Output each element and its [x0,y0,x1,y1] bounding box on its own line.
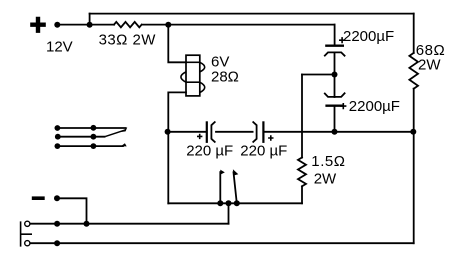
wire: from R1 junction down to relay coil [168,25,186,63]
wire: C1 to midpoint junction [334,53,336,75]
relay coil K1 winding arc right upper [200,62,205,72]
wire: relay contact rail [168,202,302,204]
output jack terminal circle upper [25,221,30,226]
wire: contact middle stem [228,203,230,223]
relay contact blade 2 arrowhead [233,169,238,175]
connector row 1 contact barb [121,127,127,132]
junction dot mid rail left [165,129,171,135]
wire: mid rail right of C4 [263,131,413,133]
svg-text:28Ω: 28Ω [211,69,239,86]
junction dot mid rail under C2 [332,129,338,135]
connector row 1 line [57,127,126,129]
battery negative terminal symbol [32,196,45,200]
capacitor C2 2200uF straight plate [325,104,344,106]
relay coil K1 core rectangle [186,55,200,96]
capacitor C4 curved plate [253,122,257,143]
capacitor C4 polarity + [268,135,273,140]
wire: right vertical lower [413,89,415,244]
wire: bottom return line [30,242,414,244]
connector dot r1c2 [91,125,97,131]
junction dot minus stem [84,221,90,227]
junction dot top rail stub [87,22,93,28]
output jack terminal circle lower [25,241,30,246]
connector dot r2c2 [91,134,97,140]
capacitor C3 polarity + [197,134,202,139]
svg-text:220 µF: 220 µF [240,142,287,159]
wire: relay coil exit down to contact rail [168,92,186,203]
relay coil K1 winding line 2 [186,81,200,83]
output jack bar [21,221,32,246]
wire: mid rail left of C3 [168,131,206,133]
relay coil K1 winding arc left [181,72,186,82]
svg-text:2200µF: 2200µF [349,98,400,115]
wire: top rail [90,13,414,15]
relay coil K1 winding arc right lower [200,82,205,92]
connector dot r3c2 [91,143,97,149]
wire: rail after R1 to cap branch [142,24,335,26]
svg-text:2W: 2W [418,56,441,73]
node dot battery - [54,195,60,201]
junction dot after R1 [165,22,171,28]
junction dot contact left [217,200,223,206]
capacitor C1 2200uF straight plate [325,45,344,47]
capacitor C1 polarity + [339,37,345,43]
junction dot cap midpoint [332,72,338,78]
svg-text:2W: 2W [314,170,337,187]
svg-text:220 µF: 220 µF [186,142,233,159]
wire: stub from + node up to top rail [89,14,91,25]
junction dot contact middle [226,200,232,206]
capacitor C4 220uF straight plate [262,121,264,143]
svg-text:33Ω 2W: 33Ω 2W [99,32,157,49]
junction dot mid rail right [410,129,416,135]
capacitor C2 polarity + [340,103,346,109]
connector dot r2c1 [55,134,61,140]
battery positive terminal symbol [30,17,46,33]
connector row 2 line [58,136,106,138]
connector row 2 switch blade [106,130,125,136]
wire: vertical from cap midpoint down to 1.5ohm [301,75,303,158]
capacitor C3 curved plate [211,122,215,143]
svg-text:1.5Ω: 1.5Ω [311,153,345,170]
junction dot upper bottom line [54,221,60,227]
connector dot r1c1 [55,125,61,131]
resistor R2 68ohm 2W [409,53,418,89]
wire: right vertical upper [413,14,415,53]
wire: minus node to corner [57,198,87,223]
relay coil K1 winding line 1 [186,61,200,63]
connector dot r3c1 [55,143,61,149]
resistor R3 1.5ohm 2W [298,158,306,187]
svg-text:12V: 12V [46,38,73,55]
capacitor C3 220uF straight plate [206,121,208,143]
svg-text:2200µF: 2200µF [343,28,394,45]
connector row 3 line [57,145,123,147]
relay contact blade 1 arrowhead [220,170,225,175]
capacitor C1 curved plate [324,52,345,56]
wire: C2 to mid rail [334,107,336,132]
resistor R1 33ohm 2W [114,22,142,27]
wire: main positive rail [57,24,114,26]
wire: mid rail between C3 and C4 [216,131,253,133]
wire: below R3 to contact rail [301,186,303,203]
wire: midpoint junction to C2 [334,75,336,98]
relay contact blade 2 [233,171,236,203]
wire: cap midpoint tap [302,74,335,76]
junction dot contact right [234,200,240,206]
node dot battery + [54,22,60,28]
relay contact blade 1 [219,171,221,203]
junction dot lower bottom line [54,240,60,246]
wire: upper bottom line from jack to contact stem [30,223,229,225]
wire: drop from rail into C1 [334,25,336,45]
connector row 3 arrow tip [121,143,127,146]
capacitor C2 curved plate [324,93,345,97]
